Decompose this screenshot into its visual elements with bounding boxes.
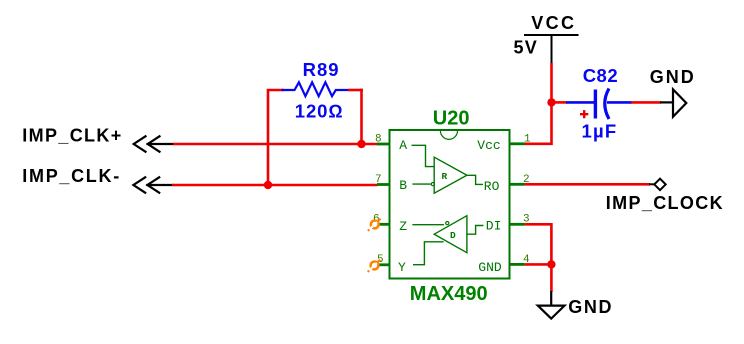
svg-text:R: R bbox=[442, 171, 448, 182]
capacitor C82 bbox=[566, 89, 632, 120]
wire pin 3 down bbox=[525, 224, 552, 292]
pin 8 stub bbox=[377, 143, 390, 146]
IC notch bbox=[440, 131, 457, 140]
junction VCC/C82 bbox=[547, 98, 555, 106]
wire pin 2 to IMP_CLOCK bbox=[525, 183, 650, 186]
junction pin4/gnd bbox=[547, 260, 555, 268]
svg-text:MAX490: MAX490 bbox=[410, 283, 488, 305]
svg-text:GND: GND bbox=[568, 297, 613, 317]
off-page connector diamond IMP_CLOCK bbox=[649, 179, 666, 190]
off-page connector chevron IMP_CLK+ bbox=[134, 136, 174, 151]
no-connect marker pin 6 bbox=[368, 219, 381, 231]
wire resistor right leg bbox=[360, 89, 363, 144]
svg-text:B: B bbox=[399, 178, 407, 193]
receiver amp R bbox=[412, 145, 484, 193]
svg-text:Y: Y bbox=[398, 260, 406, 275]
pin 7 stub bbox=[377, 183, 390, 186]
pin 2 stub bbox=[510, 183, 525, 186]
svg-text:Vcc: Vcc bbox=[477, 138, 500, 153]
svg-text:IMP_CLK+: IMP_CLK+ bbox=[22, 126, 122, 146]
svg-text:Z: Z bbox=[399, 219, 407, 234]
pin 1 stub bbox=[510, 142, 525, 145]
wire resistor top left bbox=[267, 89, 284, 92]
no-connect marker pin 5 bbox=[368, 260, 381, 272]
wire pin 4 bbox=[525, 263, 552, 266]
svg-text:U20: U20 bbox=[433, 108, 470, 130]
svg-text:C82: C82 bbox=[583, 65, 618, 86]
junction on IMP_CLK+ bbox=[357, 140, 365, 148]
svg-text:IMP_CLOCK: IMP_CLOCK bbox=[606, 193, 724, 213]
resistor R89 bbox=[282, 82, 350, 96]
pin 3 stub bbox=[510, 223, 525, 226]
junction on IMP_CLK- bbox=[264, 181, 272, 189]
wire junction to C82 bbox=[552, 101, 568, 104]
ground GND right bbox=[660, 89, 686, 117]
wire resistor top right bbox=[348, 89, 363, 92]
wire VCC down to pin 1 bbox=[524, 63, 552, 144]
wire C82 to GND bbox=[631, 101, 661, 104]
pin 5 stub bbox=[378, 263, 390, 266]
IC U20 MAX490 bbox=[368, 108, 531, 306]
svg-text:RO: RO bbox=[484, 179, 500, 194]
svg-text:IMP_CLK-: IMP_CLK- bbox=[22, 166, 121, 186]
svg-text:VCC: VCC bbox=[531, 13, 576, 33]
svg-text:GND: GND bbox=[478, 260, 502, 275]
svg-text:GND: GND bbox=[650, 67, 696, 87]
resistor R89 network: left leg wire bbox=[267, 90, 270, 185]
svg-text:8: 8 bbox=[375, 134, 382, 146]
svg-text:1µF: 1µF bbox=[582, 121, 618, 142]
svg-text:5V: 5V bbox=[514, 38, 538, 58]
svg-text:D: D bbox=[450, 230, 456, 241]
svg-text:120Ω: 120Ω bbox=[295, 100, 344, 121]
wire IMP_CLK+ to pin 8 bbox=[173, 143, 378, 146]
svg-text:DI: DI bbox=[486, 219, 502, 234]
ground GND bottom bbox=[538, 291, 565, 319]
IC body bbox=[390, 130, 510, 279]
svg-text:1: 1 bbox=[524, 134, 531, 146]
wire IMP_CLK- to pin 7 bbox=[172, 184, 378, 187]
svg-text:R89: R89 bbox=[303, 59, 340, 80]
driver amp D bbox=[412, 216, 483, 265]
svg-text:A: A bbox=[399, 138, 407, 153]
svg-text:7: 7 bbox=[375, 174, 382, 186]
pin 6 stub bbox=[378, 223, 390, 226]
off-page connector chevron IMP_CLK- bbox=[133, 177, 172, 192]
pin 4 stub bbox=[510, 263, 525, 266]
